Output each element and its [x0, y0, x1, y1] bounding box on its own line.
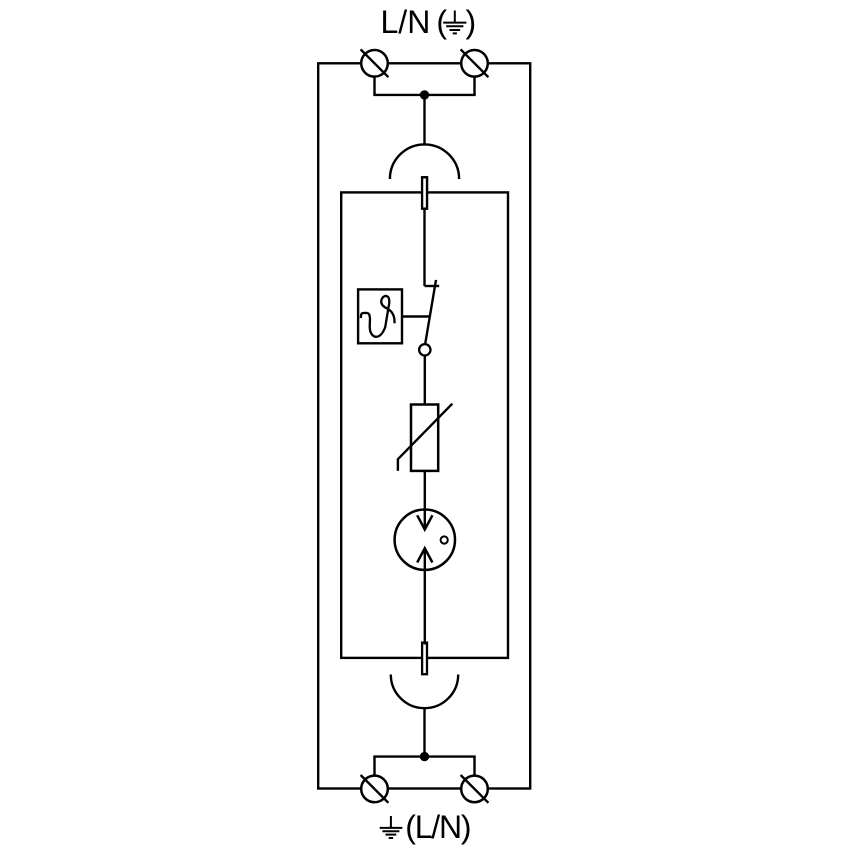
inner module rectangle — [341, 192, 508, 658]
wire: bottom-right terminal drop — [473, 757, 475, 776]
indicator bottom arrowhead (up) — [417, 548, 432, 562]
wire: pivot to varistor — [424, 356, 426, 405]
terminal X1 top-left — [361, 49, 389, 77]
wire: bottom bus — [373, 755, 475, 757]
earth symbol in top label — [443, 11, 466, 34]
terminal X4 bottom-right — [461, 775, 489, 803]
terminal X2 top-right — [461, 49, 489, 77]
indicator top arrowhead (down) — [417, 515, 432, 529]
wire: thermal box to blade — [402, 315, 430, 317]
wire: bottom-left terminal drop — [373, 757, 375, 776]
varistor diagonal with tail — [398, 404, 452, 471]
wire: top-right terminal drop — [473, 77, 475, 95]
female plug-in contact (bottom arc) — [391, 675, 458, 709]
switch blade (thermal disconnector) — [425, 280, 436, 343]
label PE (L/N) bottom — [380, 809, 472, 845]
terminal X3 bottom-left — [361, 775, 389, 803]
wire: pin to disconnector — [423, 209, 425, 286]
male plug-in pin (top blade) — [422, 177, 427, 208]
indicator small circle — [441, 536, 448, 543]
wire: bottom arc to junction — [423, 708, 425, 756]
switch fixed contact tick — [425, 285, 440, 287]
wire: varistor to indicator — [424, 471, 426, 530]
label L/N (PE) top — [381, 4, 477, 40]
female plug-in contact (top arc) — [390, 144, 459, 179]
redraw pin over inner rect edge — [422, 177, 427, 208]
earth symbol in bottom label — [380, 816, 403, 838]
outer enclosure rectangle — [318, 63, 530, 788]
wire: dot to plug contact — [423, 95, 425, 145]
svg-text:L/N: L/N — [381, 4, 431, 40]
wire: top bus — [373, 94, 475, 96]
junction dot bottom — [420, 752, 429, 761]
svg-text:(L/N): (L/N) — [405, 809, 471, 845]
svg-text:): ) — [466, 4, 477, 40]
switch pivot circle — [419, 344, 430, 355]
wire: top-left terminal drop — [373, 77, 375, 95]
thermal element box — [358, 289, 402, 343]
male plug-in pin (bottom blade) — [422, 643, 427, 675]
junction dot top — [420, 90, 429, 99]
wire: indicator to bottom pin — [424, 548, 426, 644]
thermal squiggle (script theta) — [361, 296, 395, 337]
varistor body — [411, 405, 438, 471]
status indicator circle — [395, 510, 455, 570]
